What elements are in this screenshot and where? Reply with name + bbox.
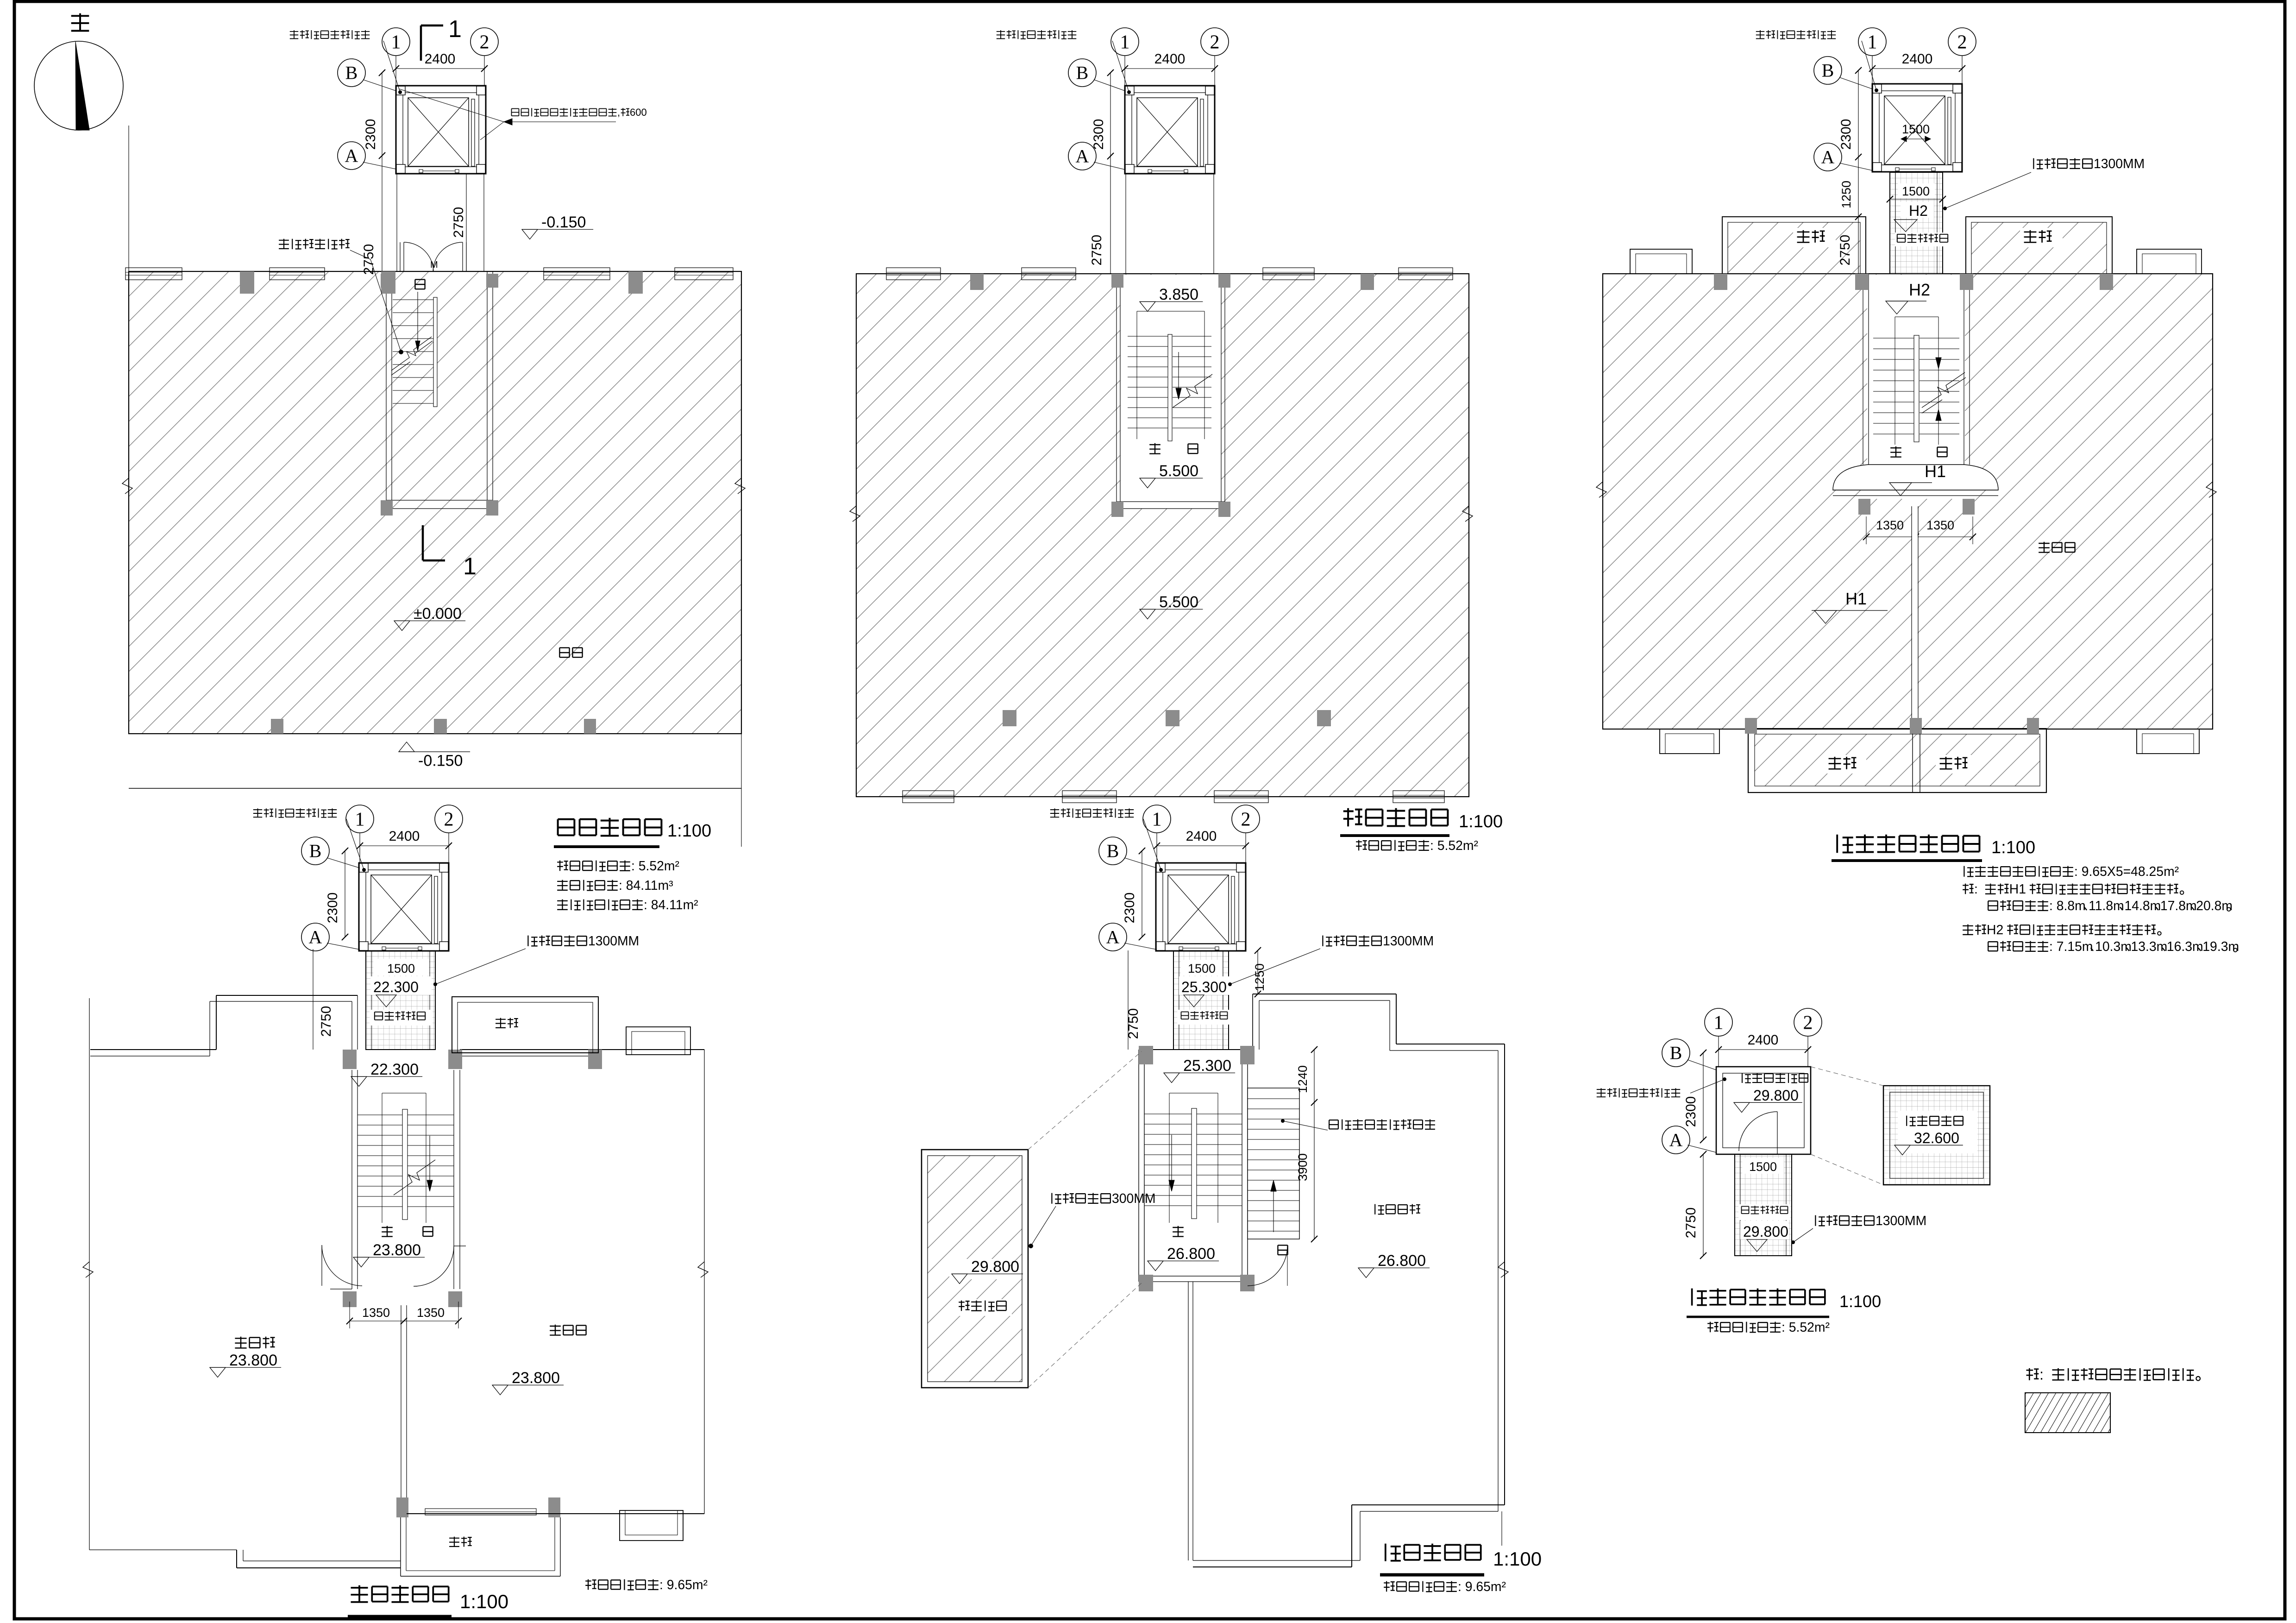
- plan1 label 首层三面设混凝土防撞栏 leader lines: [512, 109, 519, 116]
- plan6 corridor: [1735, 1154, 1792, 1256]
- svg-text:2750: 2750: [1838, 235, 1853, 266]
- svg-text:1350: 1350: [1926, 518, 1954, 532]
- legend hatch box: [2025, 1393, 2110, 1433]
- plan1 dim 2750 left corridor: [382, 156, 383, 271]
- svg-text:2300: 2300: [1091, 119, 1106, 150]
- svg-text:2300: 2300: [325, 893, 340, 924]
- svg-text:2750: 2750: [451, 207, 466, 238]
- svg-text:5.500: 5.500: [1159, 593, 1198, 611]
- svg-text:-0.150: -0.150: [541, 214, 586, 231]
- plan4 dim 2400: [360, 845, 449, 846]
- plan1 stair break line diagonal: [391, 337, 432, 371]
- svg-text:H2: H2: [1987, 923, 2003, 937]
- plan6 machine room roof box: [1883, 1086, 1990, 1185]
- plan1 entrance double door: [400, 242, 401, 271]
- plan6 roof labels: [1898, 1111, 1977, 1153]
- svg-text:17.8m: 17.8m: [2160, 899, 2197, 913]
- svg-text:600: 600: [630, 107, 647, 118]
- plan3 labels 下 上: [1890, 447, 1901, 457]
- svg-text:: 84.11m²: : 84.11m²: [644, 898, 698, 912]
- plan1 top wall windows: [125, 268, 182, 280]
- plan1 stair down-flight arrow: [417, 292, 418, 345]
- svg-text:2400: 2400: [1154, 51, 1186, 67]
- svg-text:: 5.52m²: : 5.52m²: [631, 859, 679, 874]
- svg-text:A: A: [1669, 1130, 1683, 1151]
- svg-text:2400: 2400: [1902, 51, 1933, 67]
- plan1 dim 2400 elevator: [396, 68, 484, 69]
- plan4 grid bubble 1: [359, 832, 360, 863]
- svg-text:B: B: [1076, 63, 1089, 83]
- plan1 area notes: [557, 861, 568, 871]
- plan4 room label 标准层: [550, 1325, 561, 1335]
- plan4 dim 2750: [313, 949, 314, 1050]
- svg-text:5.500: 5.500: [1159, 462, 1198, 480]
- svg-text:32.600: 32.600: [1914, 1130, 1959, 1146]
- plan1 grid bubble 1: [395, 55, 396, 86]
- plan2 stair well white box: [1120, 275, 1221, 509]
- plan4 stair flight edges: [382, 1093, 383, 1223]
- plan5 top wall line at stair: [1139, 1049, 1255, 1050]
- svg-text:2750: 2750: [1089, 235, 1104, 266]
- svg-text:A: A: [1106, 927, 1120, 948]
- svg-text:B: B: [309, 841, 322, 862]
- plan6 grid bubble A: [1662, 1126, 1690, 1154]
- plan2 grid bubble B: [1068, 59, 1096, 87]
- plan4 wall columns top: [343, 1050, 357, 1069]
- svg-text:1: 1: [1152, 809, 1162, 830]
- plan2 grid bubble 1: [1124, 55, 1125, 86]
- svg-text:22.300: 22.300: [373, 979, 419, 995]
- plan4 grid bubble 2: [448, 832, 449, 863]
- legend note 注: 填充部分为原有建筑物: [2026, 1368, 2039, 1380]
- plan3 top wall columns: [1714, 274, 1727, 290]
- plan2 area note: [1356, 840, 1367, 851]
- plan3 corridor labels: [1898, 183, 1935, 198]
- svg-text:2300: 2300: [363, 119, 378, 150]
- plan3 standard-floor hatched slab: [1603, 274, 2213, 729]
- plan3 stair well white column: [1867, 275, 1965, 499]
- plan2 stair arrows: [1178, 352, 1179, 394]
- plan1 lower sidewalk strip line: [129, 788, 741, 789]
- svg-text:B: B: [1107, 841, 1119, 862]
- plan3 grid bubble B: [1814, 57, 1842, 84]
- svg-text:: 9.65m²: : 9.65m²: [1458, 1579, 1506, 1594]
- svg-text:B: B: [345, 63, 358, 83]
- svg-text:2300: 2300: [1838, 119, 1854, 150]
- plan4 stair arrows and break: [429, 1136, 430, 1186]
- plan6 dim 2750: [1703, 1154, 1704, 1256]
- plan5 corridor labels: [1181, 960, 1223, 975]
- plan2 stair treads: [1128, 336, 1168, 337]
- svg-text:2300: 2300: [1683, 1096, 1699, 1127]
- plan1 level mark -0.150 below slab: [399, 751, 470, 752]
- plan6 label 拟加装钢结构电梯 with leader: [1597, 1088, 1606, 1097]
- svg-text:23.800: 23.800: [512, 1369, 560, 1387]
- svg-text:A: A: [345, 145, 358, 166]
- svg-text:: 8.8m: : 8.8m: [2049, 899, 2086, 913]
- plan3 landing bulge with curved bottom: [1833, 465, 1998, 490]
- svg-text:1: 1: [391, 31, 401, 53]
- plan5 stair corner columns: [1139, 1046, 1153, 1064]
- plan2 stair break diagonal: [1173, 374, 1212, 408]
- plan6 dim 2400: [1719, 1049, 1808, 1050]
- svg-text:H1: H1: [2009, 882, 2026, 897]
- plan4 terrace left edge: [89, 998, 90, 1550]
- plan5 grid bubble 2: [1245, 832, 1246, 863]
- plan3 dim 1500 inside shaft: [1901, 138, 1931, 139]
- plan5 label 上电梯机房不锈钢梯: [1329, 1120, 1338, 1129]
- north arrow compass: circle: [34, 41, 123, 130]
- plan1 stair treads: [393, 299, 434, 300]
- plan5 level 29.800 in rect: [949, 1259, 1010, 1279]
- plan5 label 拟加装钢结构电梯 with leader: [1050, 808, 1059, 817]
- svg-text:,: ,: [617, 107, 620, 118]
- plan4 stair bottom doors: [330, 1289, 352, 1290]
- plan5 elevator shaft: [1156, 863, 1246, 951]
- plan5 stair box walls: [1138, 1050, 1139, 1282]
- svg-text:1350: 1350: [1876, 518, 1904, 532]
- svg-text:29.800: 29.800: [1753, 1087, 1799, 1104]
- plan1 grid bubble A: [338, 142, 365, 170]
- plan1 ground-floor hatched slab (existing building): [129, 271, 741, 734]
- plan4 bottom wall windows: [425, 1509, 536, 1515]
- plan1 left wall extension line above: [128, 126, 129, 271]
- svg-text:1: 1: [355, 809, 365, 830]
- svg-text:29.800: 29.800: [971, 1258, 1019, 1276]
- plan4 title 八层平面图: [351, 1585, 368, 1602]
- svg-text:-0.150: -0.150: [418, 752, 463, 770]
- plan2 second-floor hatched slab: [856, 274, 1469, 797]
- plan4 top-left parapet walls: [90, 1049, 216, 1050]
- plan4 grid bubble A: [301, 923, 329, 951]
- svg-text:2: 2: [480, 31, 489, 53]
- plan3 dim 2400: [1872, 68, 1962, 69]
- plan1 room label 铺面: [559, 648, 569, 657]
- plan5 label 天面露台: [1375, 1204, 1384, 1214]
- svg-text:1: 1: [1868, 31, 1877, 53]
- plan4 bottom-right window bay: [620, 1510, 683, 1541]
- svg-text:1:100: 1:100: [1839, 1292, 1881, 1311]
- plan4 center wall to balcony: [401, 1305, 401, 1517]
- plan4 break marks: [83, 1262, 93, 1277]
- plan5 label 下: [1173, 1226, 1184, 1237]
- plan4 top wall right of stair: [460, 1049, 704, 1050]
- svg-text:1: 1: [1714, 1012, 1724, 1033]
- svg-text:1:100: 1:100: [667, 821, 711, 841]
- svg-text:22.300: 22.300: [370, 1061, 419, 1078]
- plan1 right edge line full height: [741, 271, 742, 847]
- svg-text:1240: 1240: [1296, 1065, 1310, 1093]
- plan4 bottom wall right part: [407, 1513, 704, 1514]
- plan2 labels 下 上: [1149, 443, 1161, 454]
- plan4 bottom balcony columns: [396, 1497, 408, 1517]
- plan6 title 电梯机房平面图: [1692, 1289, 1707, 1306]
- plan3 elevator shaft: [1872, 84, 1962, 172]
- plan1 break marks on side walls: [122, 478, 132, 494]
- plan6 corridor labels: [1742, 1158, 1784, 1174]
- svg-text:2: 2: [1803, 1012, 1813, 1033]
- plan3 top-right balcony: [1966, 217, 2112, 274]
- plan3 grid bubble A: [1814, 143, 1842, 171]
- plan5 dim 3900: [1314, 1102, 1315, 1239]
- svg-text:2400: 2400: [425, 51, 456, 67]
- plan3 bottom balconies: [1748, 729, 2046, 793]
- plan3 grid bubble 1: [1872, 55, 1873, 84]
- svg-text:1500: 1500: [1749, 1160, 1777, 1174]
- plan2 top wall windows: [886, 268, 941, 280]
- svg-text:1: 1: [448, 16, 462, 43]
- svg-text:3.850: 3.850: [1159, 286, 1198, 303]
- plan2 title 二层平面图: [1343, 808, 1362, 827]
- svg-text:H1: H1: [1925, 462, 1946, 481]
- plan3 label 拟加装钢结构电梯 with leader: [1756, 30, 1764, 38]
- plan6 machine room labels: [1742, 1073, 1751, 1083]
- svg-text:M: M: [430, 260, 438, 270]
- svg-text:20.8m: 20.8m: [2196, 899, 2233, 913]
- svg-text:1500: 1500: [1188, 962, 1216, 975]
- svg-text:A: A: [1076, 146, 1089, 167]
- plan4 stair treads: [358, 1114, 402, 1115]
- plan3 room label 标准层: [2039, 542, 2050, 553]
- svg-text:2: 2: [1241, 809, 1251, 830]
- plan5 stair flight edges: [1169, 1093, 1170, 1223]
- plan3 notes block: [1964, 866, 1973, 877]
- svg-text:1:100: 1:100: [460, 1591, 508, 1612]
- plan5 label 不锈钢栏杆300MM with leader: [1052, 1193, 1061, 1204]
- plan3 label 不锈钢栏杆1300MM: [2033, 158, 2043, 169]
- plan2 label 拟加装钢结构电梯 with leader: [997, 30, 1005, 38]
- plan4 stair center rail: [402, 1109, 408, 1220]
- plan4 bottom balcony: [400, 1517, 401, 1576]
- plan5 title 天面平面图: [1386, 1544, 1401, 1561]
- plan4 label 拟加装钢结构电梯 with leader: [253, 808, 262, 817]
- svg-text:1500: 1500: [1902, 122, 1930, 136]
- plan1 dim 2300 left of shaft: [382, 73, 383, 156]
- plan4 bottom-left parapet: [89, 1549, 237, 1550]
- svg-text:1300MM: 1300MM: [1383, 934, 1434, 949]
- svg-text:3900: 3900: [1296, 1153, 1310, 1181]
- plan4 top-right window bay: [626, 1027, 690, 1055]
- plan3 title 三至七层平面图: [1837, 835, 1853, 853]
- svg-text:23.800: 23.800: [229, 1352, 277, 1369]
- plan2 interior bottom columns: [1003, 710, 1016, 726]
- plan2 dim 2400: [1125, 68, 1215, 69]
- plan6 grid bubble 2: [1807, 1036, 1808, 1067]
- plan5 stair-roof hatched rect: [922, 1150, 1028, 1388]
- svg-text:26.800: 26.800: [1378, 1252, 1426, 1270]
- svg-text:2300: 2300: [1122, 893, 1137, 924]
- plan5 stair door bottom right: [1248, 1246, 1287, 1286]
- plan3 grid bubble 2: [1962, 55, 1963, 84]
- plan3 steel corridor with grid hatch: [1890, 172, 1943, 274]
- plan5 break mark right: [1498, 1262, 1508, 1277]
- plan5 dashed projection lines: [1028, 1051, 1142, 1150]
- plan1 top wall columns: [240, 271, 254, 294]
- svg-text:2750: 2750: [319, 1006, 334, 1037]
- plan5 stair treads: [1144, 1113, 1192, 1114]
- plan5 stair down arrow: [1171, 1135, 1172, 1186]
- plan4 stair bottom columns: [343, 1291, 357, 1307]
- plan6 dim 2300: [1703, 1053, 1704, 1140]
- svg-text:19.3m: 19.3m: [2202, 939, 2239, 954]
- plan2 elevator corridor side lines: [1125, 170, 1126, 274]
- plan5 grid bubble A: [1099, 923, 1127, 951]
- plan1 stair label 上: [415, 279, 425, 289]
- plan3 bottom outer window boxes: [1660, 729, 1719, 754]
- plan3 dim 2300: [1858, 70, 1859, 157]
- plan3 dim 1250: [1858, 157, 1859, 217]
- svg-text:1500: 1500: [387, 962, 415, 975]
- plan4 top balcony: [452, 997, 598, 1053]
- svg-text:1350: 1350: [417, 1306, 445, 1320]
- svg-text:2: 2: [1210, 31, 1220, 53]
- plan1 stair shaft corner columns: [381, 274, 393, 288]
- plan1 dim 2750 right corridor: [466, 171, 467, 271]
- svg-text:300MM: 300MM: [1112, 1191, 1156, 1206]
- north arrow needle: [75, 42, 89, 130]
- plan5 dim 1240: [1314, 1050, 1315, 1102]
- plan2 stair center rail: [1168, 334, 1172, 441]
- svg-text:1: 1: [463, 553, 477, 580]
- svg-text:2400: 2400: [1748, 1032, 1779, 1048]
- svg-text:14.8m: 14.8m: [2125, 899, 2161, 913]
- plan1 stair center rail: [433, 297, 437, 407]
- plan6 grid bubble 1: [1718, 1036, 1719, 1067]
- svg-text:26.800: 26.800: [1167, 1245, 1215, 1263]
- svg-text:2400: 2400: [389, 829, 420, 844]
- plan1 label 拟加装钢结构电梯 with leader: [290, 30, 298, 38]
- plan2 bottom wall windows: [903, 791, 954, 803]
- north label 北: [71, 13, 89, 31]
- plan1 stair shaft walls: [386, 271, 387, 500]
- plan3 stair arrows: [1936, 358, 1941, 369]
- plan4 label 不锈钢栏杆1300MM: [528, 936, 537, 946]
- svg-text:1500: 1500: [1902, 184, 1930, 198]
- svg-text:: 5.52m²: : 5.52m²: [1430, 838, 1478, 853]
- plan1 grid bubble B: [338, 59, 365, 87]
- plan5 dim 2400: [1157, 845, 1246, 846]
- plan2 stair flight edge lines: [1136, 311, 1137, 439]
- plan3 center party wall: [1911, 506, 1912, 729]
- plan5 grid bubble 1: [1156, 832, 1157, 863]
- svg-text:10.3m: 10.3m: [2095, 939, 2132, 954]
- plan1 section cut mark bottom: [422, 525, 424, 560]
- plan3 stair flight edge lines: [1895, 317, 1895, 445]
- plan6 grid bubble B: [1662, 1039, 1690, 1067]
- plan3 bottom wall columns: [1745, 718, 1757, 734]
- svg-text:A: A: [309, 927, 322, 948]
- plan2 grid bubble A: [1068, 142, 1096, 170]
- plan2 top wall columns: [970, 274, 984, 290]
- plan6 area note: [1707, 1322, 1719, 1333]
- plan5 corridor: [1173, 950, 1229, 1050]
- plan4 stair column walls: [351, 1001, 352, 1050]
- svg-text:25.300: 25.300: [1183, 1057, 1231, 1075]
- svg-text:1250: 1250: [1839, 181, 1853, 208]
- plan5 roof outline top-right parapet: [1252, 994, 1253, 1050]
- svg-text:: 9.65m²: : 9.65m²: [659, 1578, 708, 1592]
- plan4 area note: [585, 1579, 596, 1590]
- plan3 break marks: [1596, 482, 1606, 497]
- svg-text:2750: 2750: [1126, 1008, 1141, 1039]
- plan1 grid bubble 2: [484, 55, 485, 86]
- plan5 area note: [1384, 1581, 1395, 1592]
- plan2 stair corner columns: [1111, 274, 1123, 288]
- plan6 machine room door: [1777, 1112, 1778, 1154]
- svg-text:1: 1: [1120, 31, 1130, 53]
- plan5 stair center rail: [1192, 1108, 1197, 1219]
- plan1 title 首层平面图: [558, 819, 575, 836]
- plan3 bulge columns: [1858, 499, 1870, 515]
- svg-text:11.8m: 11.8m: [2089, 899, 2124, 913]
- svg-text::: :: [1974, 882, 1978, 897]
- svg-text:: 9.65X5=48.25m²: : 9.65X5=48.25m²: [2074, 864, 2179, 879]
- svg-text:2: 2: [444, 809, 454, 830]
- plan3 stair center rail: [1914, 335, 1919, 442]
- svg-text:H2: H2: [1909, 280, 1930, 299]
- plan4 dim 2300: [345, 851, 345, 937]
- svg-text:1:100: 1:100: [1991, 838, 2035, 857]
- svg-text:H2: H2: [1909, 202, 1928, 219]
- svg-text:1:100: 1:100: [1459, 812, 1503, 831]
- svg-text:: 7.15m: : 7.15m: [2049, 939, 2093, 954]
- plan3 top outer window boxes: [1630, 249, 1692, 274]
- plan6 label 不锈钢栏杆 1300MM with leader: [1815, 1215, 1825, 1226]
- plan2 grid bubble 2: [1214, 55, 1215, 86]
- svg-text:±0.000: ±0.000: [414, 605, 462, 623]
- plan5 dim 2750 left: [1128, 950, 1129, 1050]
- svg-text:29.800: 29.800: [1743, 1223, 1788, 1240]
- plan4 dim 1350 1350: [350, 1321, 458, 1321]
- plan4 corridor: [366, 950, 435, 1050]
- svg-text:13.3m: 13.3m: [2131, 939, 2168, 954]
- plan5 center wall below stair: [1188, 1282, 1189, 1560]
- svg-text::: :: [2039, 1366, 2044, 1383]
- svg-text:: 5.52m²: : 5.52m²: [1782, 1320, 1830, 1335]
- plan2 dim 2300: [1110, 73, 1111, 156]
- plan5 roof bottom-right outline: [1352, 1504, 1505, 1505]
- svg-text:2400: 2400: [1186, 829, 1217, 844]
- plan5 grid bubble B: [1099, 837, 1127, 865]
- svg-text:23.800: 23.800: [373, 1241, 421, 1259]
- plan6 dashed projection lines: [1811, 1067, 1883, 1086]
- svg-text:1300MM: 1300MM: [2094, 157, 2145, 171]
- plan3 top-left balcony: [1722, 217, 1866, 274]
- plan4 corridor labels: [373, 959, 429, 975]
- plan2 dim 2750: [1110, 156, 1111, 274]
- plan3 dim 2750: [1858, 217, 1859, 274]
- svg-text:1:100: 1:100: [1493, 1548, 1542, 1570]
- plan4 labels 下 上: [382, 1226, 393, 1237]
- svg-text:B: B: [1670, 1043, 1682, 1063]
- svg-text:B: B: [1822, 60, 1834, 81]
- plan2 break marks: [850, 506, 860, 522]
- plan4 terrace label 大露台: [235, 1337, 246, 1348]
- svg-text:H1: H1: [1845, 589, 1867, 608]
- plan5 dim 2300: [1142, 851, 1142, 937]
- plan6 machine room box: [1716, 1067, 1811, 1154]
- plan4 elevator shaft: [359, 863, 449, 951]
- plan1 elevator corridor side lines: [396, 171, 397, 271]
- svg-text:1300MM: 1300MM: [588, 934, 639, 949]
- plan5 label 楼梯天面: [954, 1299, 1012, 1316]
- plan1 section cut mark top: [420, 25, 422, 61]
- plan3 stair break diagonal: [1922, 372, 1965, 408]
- svg-text:25.300: 25.300: [1181, 979, 1227, 995]
- plan5 label 不锈钢栏杆1300MM: [1323, 936, 1332, 946]
- svg-text:1250: 1250: [1253, 963, 1267, 991]
- plan1 leader 原有楼梯不变: [279, 239, 289, 249]
